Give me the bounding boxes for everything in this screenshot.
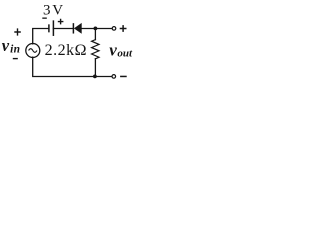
output terminal top	[112, 27, 116, 31]
v_in minus sign	[13, 58, 18, 59]
svg-text:3: 3	[43, 3, 51, 19]
output terminal bottom	[112, 75, 116, 79]
svg-text:v: v	[109, 41, 117, 60]
ac source V1 sine wave	[29, 49, 37, 53]
node A junction dot	[94, 27, 98, 31]
battery B1 short plate (negative)	[48, 25, 50, 32]
v_in plus sign	[14, 28, 20, 35]
wire source to bottom rail	[33, 57, 112, 76]
svg-text:out: out	[117, 48, 133, 60]
battery plus sign	[58, 19, 64, 25]
diode D1 cathode bar	[72, 24, 74, 33]
ac source V1 circle	[26, 44, 40, 58]
wire diode to node A	[82, 28, 112, 30]
diode D1 triangle	[74, 23, 82, 34]
wire node A down to resistor	[94, 29, 96, 40]
svg-text:2.2kΩ: 2.2kΩ	[45, 42, 87, 59]
wire battery to diode	[53, 28, 73, 30]
v_out minus sign	[120, 76, 127, 78]
svg-text:in: in	[10, 44, 20, 56]
v_out plus sign	[120, 25, 127, 32]
wire top-left corner	[33, 29, 49, 44]
battery B1 long plate (positive)	[52, 21, 54, 35]
svg-text:V: V	[52, 3, 63, 19]
resistor R1 zigzag	[92, 40, 99, 59]
battery minus sign	[42, 18, 47, 19]
wire resistor to bottom rail	[94, 59, 96, 77]
node B junction dot	[93, 75, 97, 79]
svg-text:v: v	[2, 36, 10, 55]
